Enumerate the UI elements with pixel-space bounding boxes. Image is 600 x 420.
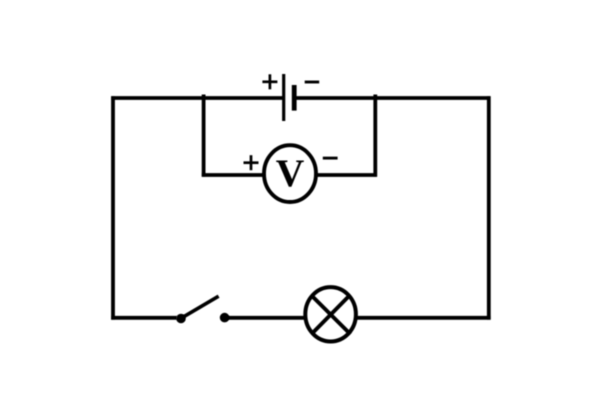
label: battery minus sign	[305, 81, 320, 84]
wire: bottom left segment to switch	[111, 316, 177, 320]
wire: voltmeter branch right vertical	[373, 95, 377, 177]
wire: top right segment (battery - side)	[294, 96, 491, 100]
wire: voltmeter branch left vertical	[202, 95, 206, 177]
lamp L1 circle	[305, 287, 356, 341]
label: battery plus sign	[262, 74, 277, 89]
label: voltmeter minus sign	[323, 157, 338, 160]
label: voltmeter plus sign	[244, 155, 259, 170]
battery B1 short negative plate	[292, 85, 297, 111]
wire: voltmeter branch right horizontal	[317, 173, 378, 177]
wire: voltmeter branch left horizontal	[202, 173, 264, 177]
wire: top left segment (battery + side)	[111, 96, 283, 100]
voltmeter V1 circle	[264, 145, 316, 202]
switch S1 right contact dot	[220, 313, 230, 323]
lamp L1 cross stroke 1	[312, 296, 351, 335]
wire: switch to lamp segment	[225, 316, 305, 320]
switch S1 left contact dot	[176, 314, 186, 324]
lamp L1 cross stroke 2	[312, 295, 350, 334]
wire: right vertical of outer loop	[487, 96, 491, 319]
svg-text:V: V	[276, 151, 305, 195]
battery B1 long positive plate	[282, 74, 285, 121]
switch S1 lever	[181, 296, 219, 318]
wire: lamp to right segment	[357, 316, 491, 320]
wire: left vertical of outer loop	[111, 96, 115, 319]
